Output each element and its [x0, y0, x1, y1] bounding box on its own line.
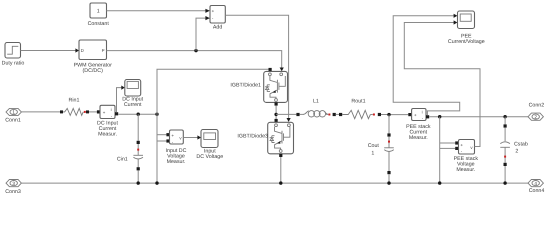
svg-text:Current: Current	[124, 102, 142, 108]
svg-text:Duty ratio: Duty ratio	[2, 61, 25, 67]
node junction on P wire	[194, 49, 197, 52]
wire IGBT1 emitter to switch node	[275, 102, 278, 122]
scope PEE Current/Voltage	[448, 11, 485, 45]
svg-text:Conn3: Conn3	[5, 189, 21, 195]
block PEE stack Voltage Measur	[454, 140, 479, 173]
node junction voltage tap	[438, 115, 441, 118]
svg-text:+: +	[212, 8, 215, 13]
svg-text:Measur.: Measur.	[409, 135, 428, 141]
wire input rail measurement to riser	[118, 113, 157, 115]
svg-text:Measur.: Measur.	[98, 132, 117, 138]
wire Conn1 to Rin1	[21, 111, 60, 113]
block Input DC Voltage Measur	[166, 130, 187, 165]
block Constant (value 1)	[88, 3, 110, 27]
wire Rout1 to PEE stack current measur	[389, 114, 408, 116]
node junction Cstab bottom	[503, 181, 506, 184]
svg-text:Conn2: Conn2	[529, 103, 545, 109]
port Conn3	[5, 180, 21, 196]
wire P branch to Add minus input	[196, 16, 210, 51]
svg-text:Measur.: Measur.	[456, 167, 475, 173]
node junction voltage measur minus	[155, 181, 158, 184]
scope DC Input Current	[122, 80, 143, 109]
svg-text:+: +	[103, 110, 106, 115]
port Conn2	[528, 103, 544, 121]
wire voltage tap to bottom bus	[157, 114, 166, 183]
svg-text:Rin1: Rin1	[69, 98, 80, 104]
node junction Cin1 bottom	[137, 181, 140, 184]
wire i output loop to PEE scope input 1	[393, 14, 460, 116]
node junction Cin1 tap	[137, 113, 140, 116]
wire PEE voltage tap to bottom bus	[440, 117, 456, 183]
wire riser to IGBT1 collector	[157, 68, 272, 114]
scope Input DC Voltage	[196, 130, 223, 161]
node junction IGBT3 emitter	[279, 181, 282, 184]
svg-text:D: D	[81, 48, 84, 53]
block U PWM Generator (DC/DC)	[74, 40, 113, 74]
svg-text:DC Voltage: DC Voltage	[196, 154, 223, 160]
svg-text:+: +	[414, 113, 417, 118]
node junction riser tap	[155, 113, 158, 116]
svg-text:i: i	[422, 110, 423, 115]
block Add (sum)	[210, 6, 225, 31]
port Conn4	[528, 180, 544, 195]
block DC Input Current Measur	[97, 105, 119, 137]
wire switch node to L1	[276, 113, 296, 115]
node junction Cstab tap	[503, 115, 506, 118]
svg-text:Add: Add	[213, 25, 222, 31]
transistor block IGBT/Diode3	[237, 122, 293, 154]
wire v output loop to PEE scope input 2	[404, 20, 480, 146]
svg-text:P: P	[102, 48, 105, 53]
block PEE stack Current Measur	[406, 109, 431, 141]
svg-text:Cin1: Cin1	[117, 157, 128, 163]
svg-text:Conn4: Conn4	[529, 188, 545, 194]
svg-text:IGBT/Diode3: IGBT/Diode3	[237, 134, 268, 140]
svg-text:1: 1	[97, 9, 100, 15]
svg-text:+: +	[171, 133, 174, 138]
wire output rail to Conn2	[429, 116, 528, 118]
capacitor Cin1	[117, 114, 143, 183]
svg-text:3: 3	[12, 181, 15, 186]
svg-text:1: 1	[371, 150, 374, 156]
wire PWM P output to IGBT1 gate	[107, 51, 284, 72]
svg-text:Current/Voltage: Current/Voltage	[448, 39, 485, 45]
capacitor Cstab	[500, 117, 528, 183]
svg-text:(DC/DC): (DC/DC)	[83, 68, 104, 74]
capacitor Cout	[368, 115, 394, 184]
svg-text:Cstab: Cstab	[514, 142, 528, 148]
svg-text:i: i	[111, 107, 112, 112]
wire v output to Input DC Voltage scope	[183, 135, 201, 139]
port Conn1	[5, 108, 21, 123]
node junction Cout tap	[387, 113, 390, 116]
svg-text:Rout1: Rout1	[351, 98, 365, 104]
wire i output to DC Input Current scope	[117, 86, 125, 113]
svg-text:Constant: Constant	[88, 21, 110, 27]
svg-text:Cout: Cout	[368, 143, 380, 149]
svg-text:4: 4	[534, 181, 537, 186]
node junction switch node	[274, 113, 277, 116]
wire Duty ratio to PWM Generator	[21, 48, 80, 52]
node junction PEE voltage minus	[438, 181, 441, 184]
node junction Cout bottom	[387, 181, 390, 184]
resistor Rout1	[339, 98, 389, 118]
svg-text:Measur.: Measur.	[167, 159, 186, 165]
wire IGBT3 emitter to bottom bus	[279, 154, 282, 183]
svg-text:2: 2	[534, 114, 537, 119]
source block Duty ratio	[2, 43, 25, 67]
wire bottom bus Conn3 to Conn4	[21, 182, 528, 184]
svg-text:2: 2	[515, 148, 518, 154]
wire Constant to Add plus input	[107, 9, 210, 13]
svg-text:L1: L1	[313, 98, 319, 104]
svg-text:IGBT/Diode1: IGBT/Diode1	[230, 83, 261, 89]
inductor L1	[296, 98, 339, 117]
transistor block IGBT/Diode1	[230, 71, 287, 102]
wire Add output to IGBT3 gate	[225, 15, 290, 122]
svg-text:+: +	[460, 143, 463, 148]
svg-text:1: 1	[12, 110, 15, 115]
resistor Rin1	[60, 98, 97, 116]
svg-text:Conn1: Conn1	[5, 118, 21, 124]
